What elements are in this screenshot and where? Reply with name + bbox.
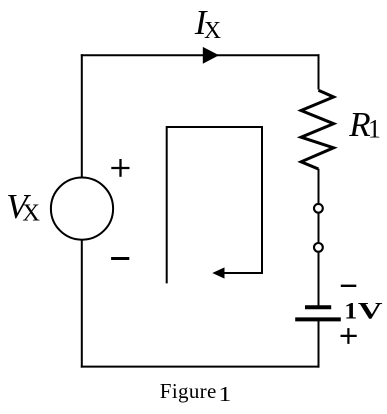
wire right upper xyxy=(318,54,320,89)
wire bottom xyxy=(81,366,320,368)
wire below terminal 2 xyxy=(318,253,320,307)
terminal circle upper xyxy=(314,204,323,213)
svg-text:1: 1 xyxy=(218,382,231,406)
battery minus label xyxy=(341,285,357,287)
voltage source VX circle xyxy=(51,178,113,240)
mesh loop arrowhead xyxy=(212,267,224,278)
plus sign at source xyxy=(111,159,129,177)
wire top xyxy=(81,54,320,56)
battery 1V top plate xyxy=(305,305,331,309)
minus sign at source xyxy=(111,257,129,260)
wire below battery xyxy=(318,320,320,367)
svg-text:1: 1 xyxy=(368,115,381,144)
svg-text:V: V xyxy=(358,299,383,324)
svg-text:X: X xyxy=(204,17,221,44)
wire right below resistor xyxy=(318,169,320,203)
resistor R1 xyxy=(301,90,334,169)
wire left upper xyxy=(81,54,83,178)
mesh current loop xyxy=(167,127,262,283)
svg-text:Figure: Figure xyxy=(160,379,217,403)
battery plus label xyxy=(341,328,357,344)
wire left lower xyxy=(81,239,83,367)
battery 1V bottom plate xyxy=(295,317,341,321)
svg-text:1: 1 xyxy=(344,298,357,323)
svg-text:X: X xyxy=(22,200,40,227)
wire between terminals xyxy=(318,214,320,243)
current arrow on top wire xyxy=(203,47,219,64)
terminal circle lower xyxy=(314,243,323,252)
